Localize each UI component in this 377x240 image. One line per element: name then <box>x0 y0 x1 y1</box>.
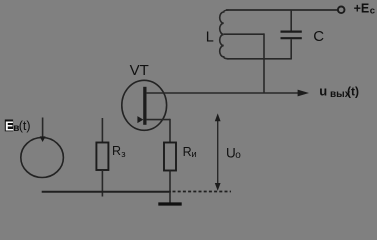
label Ri <box>183 145 197 160</box>
arrow into source <box>40 118 46 143</box>
svg-text:c: c <box>370 6 375 17</box>
svg-text:з: з <box>121 149 125 160</box>
svg-text:u: u <box>319 84 327 99</box>
wire bottom rail <box>42 191 171 193</box>
voltage source Ev(t) <box>21 138 64 178</box>
svg-text:(t): (t) <box>19 119 31 133</box>
svg-text:R: R <box>183 145 192 159</box>
terminal +Ec <box>338 7 345 14</box>
resistor Rz <box>96 118 108 197</box>
label Rz <box>112 144 126 160</box>
svg-text:R: R <box>112 144 121 158</box>
resistor Ri <box>164 143 176 193</box>
ground <box>158 192 181 204</box>
dimension arrow Uo <box>215 113 221 190</box>
svg-text:+E: +E <box>354 2 370 16</box>
wire top rail <box>226 9 338 11</box>
dashed line <box>173 191 232 193</box>
label uvyh(t) <box>319 84 359 101</box>
svg-text:L: L <box>206 29 214 45</box>
label Uo <box>226 145 241 161</box>
label +Ec <box>354 2 375 17</box>
svg-text:U: U <box>226 145 236 160</box>
capacitor C <box>281 10 302 60</box>
svg-text:(t): (t) <box>347 85 359 99</box>
svg-text:и: и <box>191 149 196 160</box>
svg-text:o: o <box>235 150 241 161</box>
inductor L <box>220 10 229 59</box>
label Ev(t) <box>5 118 31 134</box>
svg-text:C: C <box>313 28 324 45</box>
wire output with arrow <box>146 90 309 97</box>
transistor VT <box>122 80 170 130</box>
wire source to Ri <box>169 119 171 143</box>
wire middle tap <box>224 33 264 35</box>
wire bottom tap <box>227 58 291 60</box>
wire tap vertical <box>263 33 265 93</box>
svg-text:VT: VT <box>130 62 149 79</box>
